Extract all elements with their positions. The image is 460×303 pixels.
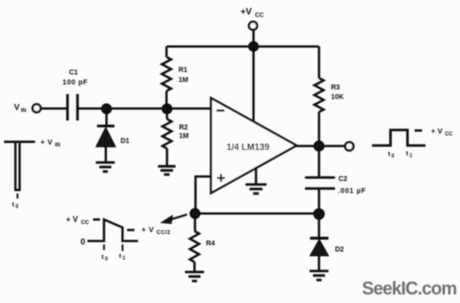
resistor R4 <box>190 214 199 272</box>
node +VCC supply terminal <box>249 22 257 30</box>
svg-text:R2: R2 <box>179 125 188 132</box>
resistor R3 <box>314 47 323 147</box>
junction output node <box>315 142 324 151</box>
label +VIN waveform <box>41 138 61 149</box>
svg-text:R3: R3 <box>331 85 340 92</box>
junction input node at D1 <box>102 105 111 114</box>
svg-text:100 pF: 100 pF <box>63 80 89 87</box>
svg-text:0: 0 <box>392 154 395 160</box>
svg-text:+ V: + V <box>431 127 442 136</box>
junction VCC rail <box>249 42 257 50</box>
svg-text:10K: 10K <box>331 94 344 101</box>
label VIN <box>14 102 26 114</box>
label t0 middle waveform <box>102 254 109 263</box>
diode D2 <box>310 214 329 271</box>
svg-text:IN: IN <box>55 143 60 149</box>
node output terminal <box>345 142 353 150</box>
ground below op-amp <box>246 185 267 194</box>
wire op-amp ground stem <box>255 169 257 185</box>
svg-text:+ V: + V <box>41 138 53 147</box>
junction input node at R1 R2 <box>163 105 172 114</box>
capacitor C1 <box>68 94 78 121</box>
svg-text:CC: CC <box>255 13 264 19</box>
svg-text:SeekIC.com: SeekIC.com <box>362 279 457 299</box>
svg-text:+ V: + V <box>142 225 155 234</box>
ground below R4 <box>185 272 204 281</box>
diode D1 <box>97 109 116 162</box>
svg-text:1: 1 <box>123 256 126 262</box>
label R1 value 1M <box>179 67 189 84</box>
wire D1 node to R2 node <box>107 107 168 109</box>
label t0 input waveform <box>12 202 19 211</box>
op-amp U1 1/4 LM139 <box>211 98 297 193</box>
pin non-inverting input plus <box>217 174 225 182</box>
wire VCC terminal stem <box>252 30 254 47</box>
junction D2 node <box>314 209 323 218</box>
junction R4 node <box>191 209 200 218</box>
ground below D1 <box>96 163 115 172</box>
svg-text:C1: C1 <box>69 70 78 77</box>
svg-text:.001 µF: .001 µF <box>338 188 366 195</box>
wire VIN terminal to C1 <box>41 107 67 109</box>
label +VCC/2 <box>142 225 171 236</box>
wire VCC to op-amp power pin <box>252 47 254 123</box>
svg-text:0: 0 <box>16 204 19 210</box>
wire C1 to D1 node <box>79 107 107 109</box>
label t1 middle waveform <box>119 253 126 262</box>
wire VCC rail <box>167 45 320 47</box>
node VCC/2 leader arrow <box>162 215 188 224</box>
svg-text:D1: D1 <box>121 138 130 145</box>
ground below D2 <box>310 271 329 280</box>
wire output node to C2 <box>318 146 320 178</box>
wire op-amp output <box>297 145 346 147</box>
label +VCC output level <box>431 127 453 138</box>
svg-text:C2: C2 <box>339 176 348 183</box>
svg-text:1: 1 <box>410 153 413 159</box>
wire C2 to bottom node <box>318 189 320 214</box>
label R3 value 10K <box>331 85 344 102</box>
svg-text:D2: D2 <box>335 247 344 254</box>
label C2 value .001 uF <box>338 176 366 195</box>
svg-text:+V: +V <box>241 7 252 17</box>
resistor R1 <box>162 47 171 109</box>
input waveform negative pulse <box>4 142 35 199</box>
svg-text:1M: 1M <box>179 133 189 140</box>
ground below R2 <box>158 166 176 174</box>
svg-text:CC: CC <box>81 220 89 226</box>
svg-text:CC/2: CC/2 <box>157 230 171 236</box>
svg-text:1M: 1M <box>179 77 189 84</box>
svg-text:+ V: + V <box>66 215 79 224</box>
label t1 output waveform <box>406 151 413 160</box>
svg-text:0: 0 <box>81 237 86 247</box>
output waveform level dash <box>415 129 423 131</box>
waveform at non-inverting input <box>88 220 139 252</box>
resistor R2 <box>162 109 171 166</box>
svg-text:R4: R4 <box>206 241 215 248</box>
svg-text:1/4 LM139: 1/4 LM139 <box>227 142 270 152</box>
label +VCC <box>241 7 265 20</box>
wire non-inverting input to R4 node <box>196 177 212 214</box>
output waveform positive pulse <box>372 130 426 146</box>
svg-text:IN: IN <box>21 108 26 114</box>
label C1 value 100 pF <box>63 70 89 87</box>
svg-text:0: 0 <box>105 257 108 263</box>
svg-text:CC: CC <box>445 132 453 138</box>
node VIN input terminal <box>33 104 41 112</box>
wire bottom feedback rail <box>195 212 319 214</box>
capacitor C2 <box>305 178 335 189</box>
wire R2 node to op-amp inverting input <box>167 107 211 109</box>
svg-text:R1: R1 <box>179 67 188 74</box>
label +VCC waveform level <box>66 215 89 226</box>
svg-text:V: V <box>14 102 20 112</box>
label t0 output waveform <box>388 151 395 160</box>
label R2 value 1M <box>179 125 189 141</box>
pin inverting input minus <box>217 109 225 111</box>
